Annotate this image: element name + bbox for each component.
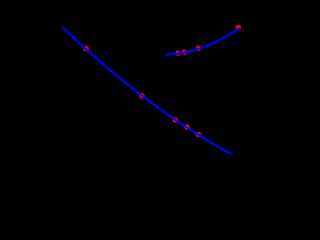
data point marker 5 (lower curve) [196,132,202,138]
data point marker 6 (upper curve) [175,50,180,55]
data point marker 7 (upper curve) [182,50,187,55]
data point marker 1 (lower curve) [83,46,89,52]
main descending blue curve [63,28,231,154]
data point marker 2 (lower curve) [139,93,145,99]
data point marker 9 (upper curve) [236,25,241,30]
data point marker 3 (lower curve) [173,117,179,123]
chart: two blue curves with red data points on black background [0,0,275,193]
upper ascending blue curve [167,29,239,55]
data point marker 8 (upper curve) [196,46,201,51]
data point marker 4 (lower curve) [184,124,190,130]
